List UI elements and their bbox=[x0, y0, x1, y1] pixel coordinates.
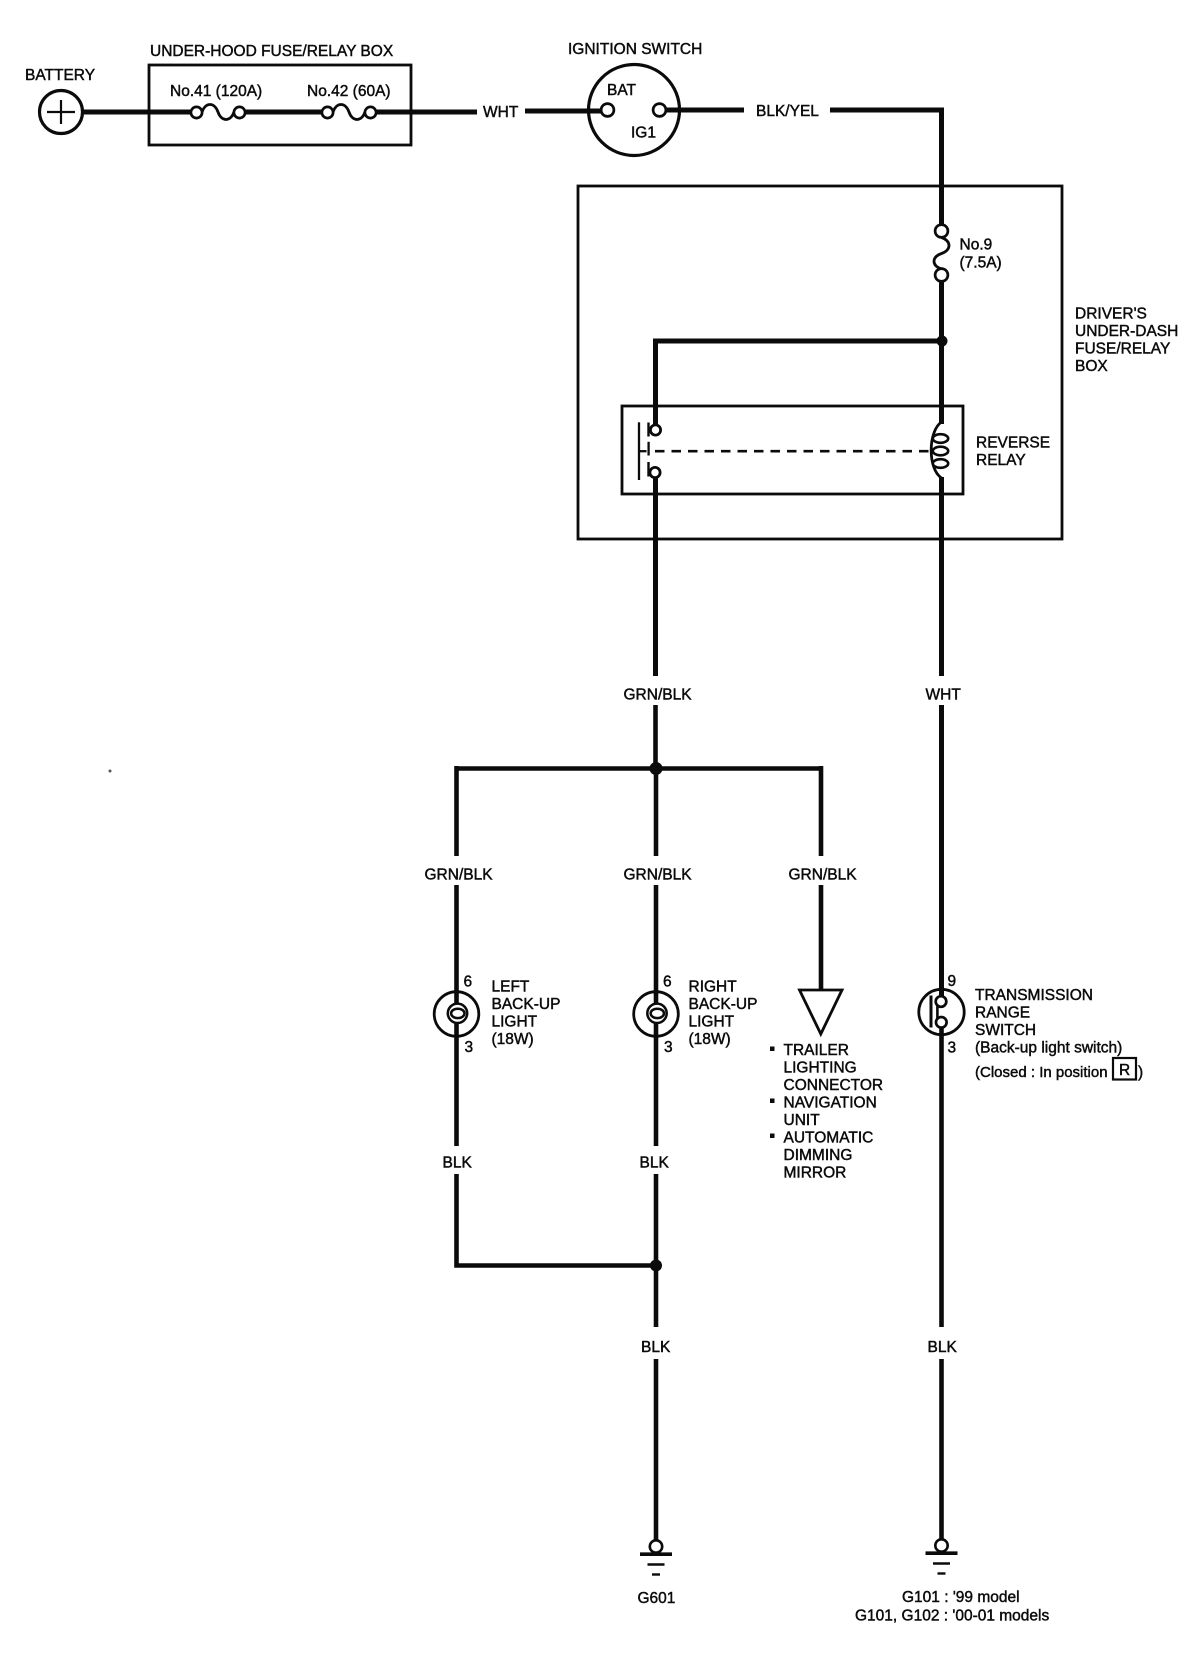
svg-text:3: 3 bbox=[664, 1039, 673, 1056]
wire relay coil down to WHT label bbox=[939, 477, 944, 676]
driver's under-dash fuse/relay box bbox=[578, 186, 1062, 539]
wire WHT to ignition switch bbox=[525, 109, 605, 114]
wire left drop to GRN/BLK label bbox=[454, 766, 459, 856]
node branch junction bbox=[650, 762, 663, 775]
transmission range switch label bbox=[975, 987, 1122, 1081]
wire relay switch down to GRN/BLK label bbox=[653, 477, 658, 676]
svg-text:BLK/YEL: BLK/YEL bbox=[756, 103, 819, 120]
svg-text:RANGE: RANGE bbox=[975, 1005, 1030, 1022]
under-hood fuse/relay box bbox=[149, 65, 411, 145]
svg-text:BLK: BLK bbox=[641, 1339, 671, 1356]
wire ignition IG1 to BLK/YEL label bbox=[666, 108, 744, 113]
svg-text:WHT: WHT bbox=[926, 687, 962, 704]
svg-text:No.41 (120A): No.41 (120A) bbox=[170, 83, 262, 100]
svg-text:MIRROR: MIRROR bbox=[784, 1165, 847, 1182]
wire fuse41 to fuse42 bbox=[245, 110, 322, 115]
svg-text:R: R bbox=[1119, 1062, 1130, 1079]
svg-text:LIGHTING: LIGHTING bbox=[784, 1060, 857, 1077]
driver's under-dash fuse/relay box label bbox=[1075, 306, 1178, 376]
wire BLK to ground junction bbox=[654, 1174, 659, 1327]
svg-text:LIGHT: LIGHT bbox=[689, 1014, 735, 1031]
svg-text:G101 : '99 model: G101 : '99 model bbox=[902, 1589, 1020, 1606]
svg-text:BLK: BLK bbox=[443, 1155, 473, 1172]
node ground junction bbox=[650, 1260, 662, 1272]
svg-text:No.9: No.9 bbox=[960, 237, 993, 254]
wire GRN/BLK to right bulb bbox=[654, 885, 659, 1004]
svg-text:(18W): (18W) bbox=[492, 1031, 534, 1048]
ground G601 bbox=[640, 1540, 672, 1574]
svg-text:BAT: BAT bbox=[607, 82, 637, 99]
svg-text:9: 9 bbox=[948, 973, 957, 990]
reverse relay label bbox=[976, 435, 1050, 470]
wire battery to fuse 41 bbox=[82, 110, 191, 115]
svg-text:WHT: WHT bbox=[483, 104, 519, 121]
wire BLK to ground G601 bbox=[654, 1359, 659, 1541]
transmission range switch bbox=[919, 989, 964, 1034]
svg-text:GRN/BLK: GRN/BLK bbox=[425, 867, 494, 884]
fuse No.41 bbox=[191, 105, 245, 120]
svg-text:G601: G601 bbox=[638, 1590, 676, 1607]
svg-text:TRANSMISSION: TRANSMISSION bbox=[975, 987, 1093, 1004]
svg-text:SWITCH: SWITCH bbox=[975, 1022, 1036, 1039]
trailer/navigation/mirror list bbox=[770, 1042, 883, 1182]
svg-text:REVERSE: REVERSE bbox=[976, 435, 1050, 452]
svg-text:IGNITION SWITCH: IGNITION SWITCH bbox=[568, 41, 702, 58]
wire left bulb down to BLK label bbox=[454, 1023, 459, 1147]
svg-text:DRIVER'S: DRIVER'S bbox=[1075, 306, 1147, 323]
relay switch contact tick bbox=[639, 442, 649, 456]
wire middle drop to GRN/BLK label bbox=[654, 769, 659, 857]
node junction at relay feed bbox=[937, 336, 948, 347]
relay switch top contact bbox=[649, 423, 661, 437]
svg-text:RELAY: RELAY bbox=[976, 452, 1026, 469]
wire junction to relay switch (horizontal + down) bbox=[656, 341, 943, 425]
svg-text:LIGHT: LIGHT bbox=[492, 1014, 538, 1031]
relay switch bottom contact bbox=[649, 462, 661, 478]
relay coil bbox=[931, 422, 948, 478]
wire fuse42 to WHT label bbox=[376, 110, 477, 115]
svg-text:GRN/BLK: GRN/BLK bbox=[624, 867, 693, 884]
fuse No.9 label bbox=[960, 237, 1002, 272]
wire right bulb down to BLK label bbox=[654, 1023, 659, 1147]
svg-text:UNIT: UNIT bbox=[784, 1112, 821, 1129]
svg-text:3: 3 bbox=[948, 1040, 957, 1057]
left back-up light bulb bbox=[434, 992, 479, 1037]
relay switch armature bbox=[638, 422, 640, 480]
fuse No.42 bbox=[322, 105, 376, 120]
wire GRN/BLK to left bulb bbox=[454, 885, 459, 1004]
fuse No.9 bbox=[934, 225, 949, 282]
ground G101 bbox=[926, 1539, 958, 1573]
svg-text:RIGHT: RIGHT bbox=[689, 979, 738, 996]
svg-text:GRN/BLK: GRN/BLK bbox=[624, 687, 693, 704]
svg-text:BATTERY: BATTERY bbox=[25, 67, 95, 84]
wire GRN/BLK to trailer connector bbox=[819, 885, 824, 993]
svg-text:3: 3 bbox=[465, 1039, 474, 1056]
trailer lighting connector arrow bbox=[800, 990, 843, 1034]
svg-text:(18W): (18W) bbox=[689, 1031, 731, 1048]
svg-text:BLK: BLK bbox=[640, 1155, 670, 1172]
svg-text:): ) bbox=[1138, 1064, 1143, 1081]
battery bbox=[40, 91, 83, 134]
right back-up light label bbox=[689, 979, 758, 1049]
svg-text:AUTOMATIC: AUTOMATIC bbox=[784, 1130, 874, 1147]
svg-text:CONNECTOR: CONNECTOR bbox=[784, 1077, 884, 1094]
svg-text:6: 6 bbox=[464, 974, 473, 991]
svg-text:UNDER-HOOD FUSE/RELAY BOX: UNDER-HOOD FUSE/RELAY BOX bbox=[150, 43, 394, 60]
svg-text:LEFT: LEFT bbox=[492, 979, 530, 996]
svg-text:UNDER-DASH: UNDER-DASH bbox=[1075, 323, 1178, 340]
svg-text:BACK-UP: BACK-UP bbox=[689, 996, 758, 1013]
wire fuse No.9 to junction bbox=[939, 282, 944, 342]
wire switch down to BLK label bbox=[939, 1028, 944, 1328]
wire BLK to ground G101 bbox=[939, 1359, 944, 1540]
svg-text:G101, G102 : '00-01 models: G101, G102 : '00-01 models bbox=[855, 1608, 1049, 1625]
wire branch horizontal bbox=[457, 766, 822, 771]
svg-text:GRN/BLK: GRN/BLK bbox=[789, 867, 858, 884]
wire right drop to GRN/BLK label bbox=[819, 766, 824, 856]
ground G101 labels bbox=[855, 1589, 1049, 1625]
wire BLK to bottom corner bbox=[457, 1174, 657, 1266]
svg-text:TRAILER: TRAILER bbox=[784, 1042, 849, 1059]
svg-text:(Back-up light switch): (Back-up light switch) bbox=[975, 1040, 1122, 1057]
svg-text:6: 6 bbox=[663, 974, 672, 991]
svg-text:DIMMING: DIMMING bbox=[784, 1147, 853, 1164]
svg-text:No.42 (60A): No.42 (60A) bbox=[307, 83, 391, 100]
wire junction down to relay coil bbox=[939, 341, 944, 424]
boxed R bbox=[1113, 1058, 1143, 1081]
ignition switch bbox=[589, 65, 680, 156]
svg-text:BLK: BLK bbox=[928, 1339, 958, 1356]
svg-text:FUSE/RELAY: FUSE/RELAY bbox=[1075, 341, 1170, 358]
reverse relay box bbox=[622, 406, 963, 494]
wire GRN/BLK label to branch junction bbox=[653, 705, 658, 769]
left back-up light label bbox=[492, 979, 561, 1049]
svg-text:(Closed : In position: (Closed : In position bbox=[975, 1064, 1108, 1081]
svg-text:NAVIGATION: NAVIGATION bbox=[784, 1095, 877, 1112]
right back-up light bulb bbox=[634, 992, 679, 1037]
svg-text:IG1: IG1 bbox=[631, 125, 656, 142]
svg-text:(7.5A): (7.5A) bbox=[960, 255, 1002, 272]
relay dashed actuation line bbox=[655, 450, 929, 453]
wire WHT label to transmission range switch bbox=[939, 705, 944, 997]
svg-text:BACK-UP: BACK-UP bbox=[492, 996, 561, 1013]
wire BLK/YEL to under-dash box (corner down) bbox=[830, 110, 942, 225]
svg-text:BOX: BOX bbox=[1075, 358, 1108, 375]
speck artifact bbox=[109, 770, 112, 773]
